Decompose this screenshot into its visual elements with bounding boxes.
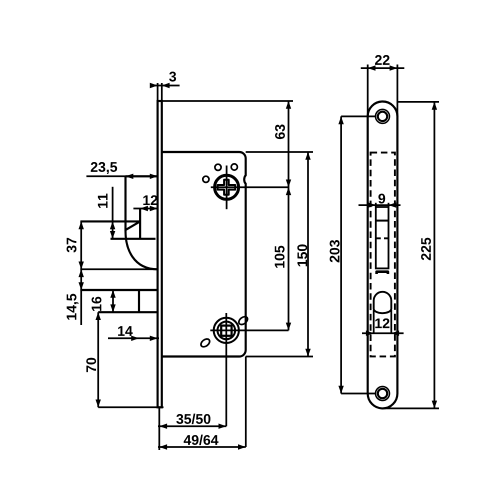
cylinder crosshair / extension lines [225, 313, 227, 426]
key cylinder outer circle [214, 318, 239, 343]
deadbolt face [138, 290, 140, 312]
latch bolt face [124, 176, 126, 231]
key cylinder inner circle [218, 322, 236, 340]
dim 70 [97, 312, 99, 407]
dim 14,5 [79, 269, 84, 277]
dim 16 [112, 290, 114, 312]
lock case body [162, 152, 246, 357]
dim 23,5 [86, 175, 157, 177]
rivet oval lower-left of cylinder [199, 337, 211, 348]
dim 35/50 [158, 407, 160, 450]
latch bevel diagonal edge [126, 221, 140, 229]
dim 22 (plate width) [367, 65, 369, 118]
rivet oval upper-right of cylinder [237, 315, 249, 326]
latch top edge / 23,5 reference [80, 220, 140, 222]
spindle square plus-shape [218, 180, 236, 195]
small hole top-right of spindle [231, 164, 237, 170]
dim 203 (screw centers) [341, 115, 376, 117]
small hole left of spindle [203, 176, 209, 182]
faceplate bottom reference [98, 406, 163, 408]
dim 225 (plate length) [397, 101, 439, 103]
latch window [376, 207, 389, 268]
deadbolt top edge [80, 289, 157, 291]
dim 9 (latch window width) [375, 203, 377, 207]
latch bolt bevel curve [126, 231, 158, 269]
key follower square [221, 326, 231, 336]
dim 63 / 105 (right of case) [162, 100, 293, 102]
small hole top-left of spindle [215, 164, 221, 170]
spindle crosshair [226, 166, 228, 210]
deadbolt window [374, 292, 392, 313]
spindle follower hub (bold ring) [215, 175, 239, 199]
latch window dashed divider [376, 237, 389, 239]
dim 150 [246, 151, 313, 153]
dim 12 (deadbolt window width) [373, 310, 375, 334]
dim 49/64 [245, 357, 247, 448]
faceplate (side view, 3mm strip) [158, 101, 162, 407]
dim 14 (deadbolt throw) [108, 337, 159, 339]
top screw hole [376, 109, 390, 123]
latch bottom edge [111, 238, 156, 240]
hidden lock case (dashed) [371, 153, 395, 357]
dim 3 (faceplate thickness) [157, 83, 159, 101]
faceplate front view (stadium outline) [368, 102, 398, 409]
latch rear guide vertical [139, 209, 141, 239]
latch window divider [376, 220, 389, 222]
latch bottom reference line [80, 268, 157, 270]
dim 11 [112, 187, 114, 239]
dim 12 (latch guide) [133, 208, 157, 210]
latch bottom bracket [377, 272, 388, 274]
dim 37 [80, 221, 82, 325]
bottom screw hole [376, 387, 390, 401]
deadbolt bottom edge [98, 311, 157, 313]
